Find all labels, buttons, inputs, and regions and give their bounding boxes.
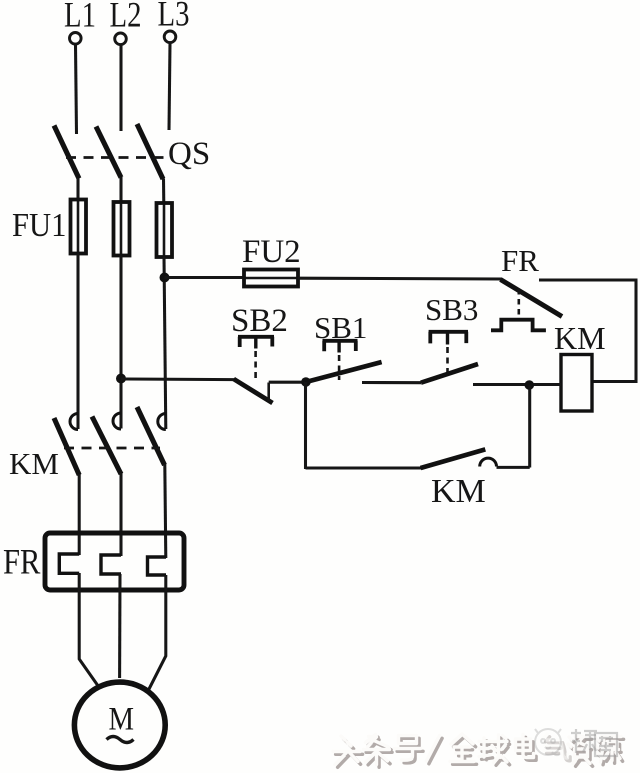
svg-text:FU2: FU2 [242, 234, 301, 270]
wire L1 terminal to QS [76, 45, 77, 134]
relay FR trip element symbol [491, 320, 546, 331]
SB2 right terminal tick [267, 383, 270, 402]
contactor KM pole1 blade [54, 418, 79, 475]
motor M circle [74, 682, 165, 768]
wire FR element3 to motor [148, 575, 166, 691]
relay FR heater element 2 [101, 555, 121, 574]
junction node SB1 left [301, 377, 311, 387]
wire FU2 to FR contact [298, 277, 502, 281]
fuse FU2 body [244, 277, 298, 280]
wire KM3 to FR element3 [165, 464, 166, 558]
wire QS3 to FU1c [162, 179, 165, 205]
svg-text:KM: KM [431, 473, 486, 510]
switch QS pole 3 blade [137, 124, 163, 179]
fuse FU1 pole3 body [163, 204, 166, 257]
wire L3 terminal to QS [169, 43, 170, 130]
pushbutton SB2 blade (NC) [234, 379, 273, 403]
motor tilde [107, 737, 134, 743]
relay FR heater element 3 [148, 557, 167, 575]
wire FR element1 to motor [79, 573, 98, 687]
wire junction to FU2 [165, 276, 246, 279]
button SB1 head [323, 341, 358, 352]
contactor KM pole3 blade [137, 407, 165, 465]
terminal L3 [164, 31, 176, 43]
coil KM body [561, 355, 592, 412]
wire FR fixed stub to right [539, 278, 638, 281]
svg-text:FR: FR [3, 542, 41, 582]
button SB2 head [238, 337, 274, 347]
contactor KM linkage dashed [64, 447, 160, 450]
watermark stamp 频 character (faint gray) [571, 729, 597, 753]
svg-text:KM: KM [554, 320, 606, 356]
wire right vertical down to coil [634, 280, 637, 383]
junction node coil left [525, 380, 535, 390]
svg-text:L2: L2 [110, 0, 142, 35]
button SB1 stem dashed [337, 342, 340, 353]
contact KM aux blade (NO) [421, 449, 486, 468]
junction node on L3 feeding FU2 [160, 273, 170, 283]
svg-text:SB2: SB2 [231, 303, 288, 339]
wire KM1 to FR element1 [78, 474, 81, 555]
contactor KM pole2 fixed hook [113, 413, 121, 429]
switch QS pole 1 blade [54, 126, 79, 179]
watermark stamp 变频圈 logo (faint gray) [535, 729, 561, 755]
relay FR box [45, 533, 184, 590]
button SB3 head [429, 332, 468, 344]
fuse FU1 pole2 body [120, 203, 123, 256]
terminal L2 [115, 33, 127, 45]
relay contact FR blade (NC) [501, 280, 563, 317]
contactor KM pole3 fixed hook [158, 414, 166, 430]
terminal L1 [70, 33, 82, 45]
wire KM aux right [497, 466, 530, 469]
pushbutton SB1 blade (NO) [306, 362, 382, 382]
pushbutton SB3 blade (NO) [421, 364, 478, 383]
contactor KM pole2 blade [92, 417, 121, 475]
dashed link SB2 stem to blade [254, 351, 257, 378]
watermark stamp 圈 character (faint gray) [595, 733, 617, 756]
fuse FU1 pole1 body [77, 201, 80, 254]
svg-text:L3: L3 [158, 0, 190, 34]
svg-text:KM: KM [9, 446, 59, 481]
svg-text:M: M [109, 700, 135, 737]
contact KM aux fixed semicircle [480, 458, 497, 466]
wire QS2 to FU1b [119, 177, 122, 203]
wire down from coil-left node [528, 385, 531, 468]
svg-text:QS: QS [168, 136, 210, 172]
wire QS1 to FU1a [76, 178, 79, 201]
wire down from SB1 node [304, 382, 307, 469]
wire L2 terminal to QS [119, 45, 122, 131]
dashed link FR blade to element [517, 289, 520, 316]
switch QS pole 2 blade [96, 127, 121, 178]
wire to KM coil right terminal [591, 380, 638, 383]
svg-text:L1: L1 [64, 0, 96, 35]
svg-text:FU1: FU1 [12, 206, 66, 244]
svg-text:SB3: SB3 [425, 292, 478, 327]
wire SB1 to SB3 [362, 381, 421, 384]
wire FU1c down across rail to KM contact 3 [164, 257, 166, 429]
button SB2 stem [254, 338, 257, 349]
wire FU1b down to junction and KM contact 2 [119, 256, 122, 429]
wire control rail to SB2 [121, 377, 235, 381]
wire KM2 to FR element2 [119, 473, 122, 556]
button SB3 stem dashed [446, 333, 449, 345]
wire KM aux bottom left [306, 466, 422, 469]
svg-text:FR: FR [501, 243, 539, 278]
wire FR element2 to motor [118, 574, 121, 678]
switch QS linkage dashed line [66, 156, 164, 159]
relay FR heater element 1 [59, 554, 79, 573]
contactor KM pole1 fixed hook [70, 414, 78, 430]
wire rail to coil left terminal [473, 383, 561, 386]
wire FU1a down to KM contact 1 [76, 254, 79, 430]
junction node on L2 feeding control rail [116, 374, 126, 384]
wire SB2 to SB1 node [269, 381, 306, 384]
